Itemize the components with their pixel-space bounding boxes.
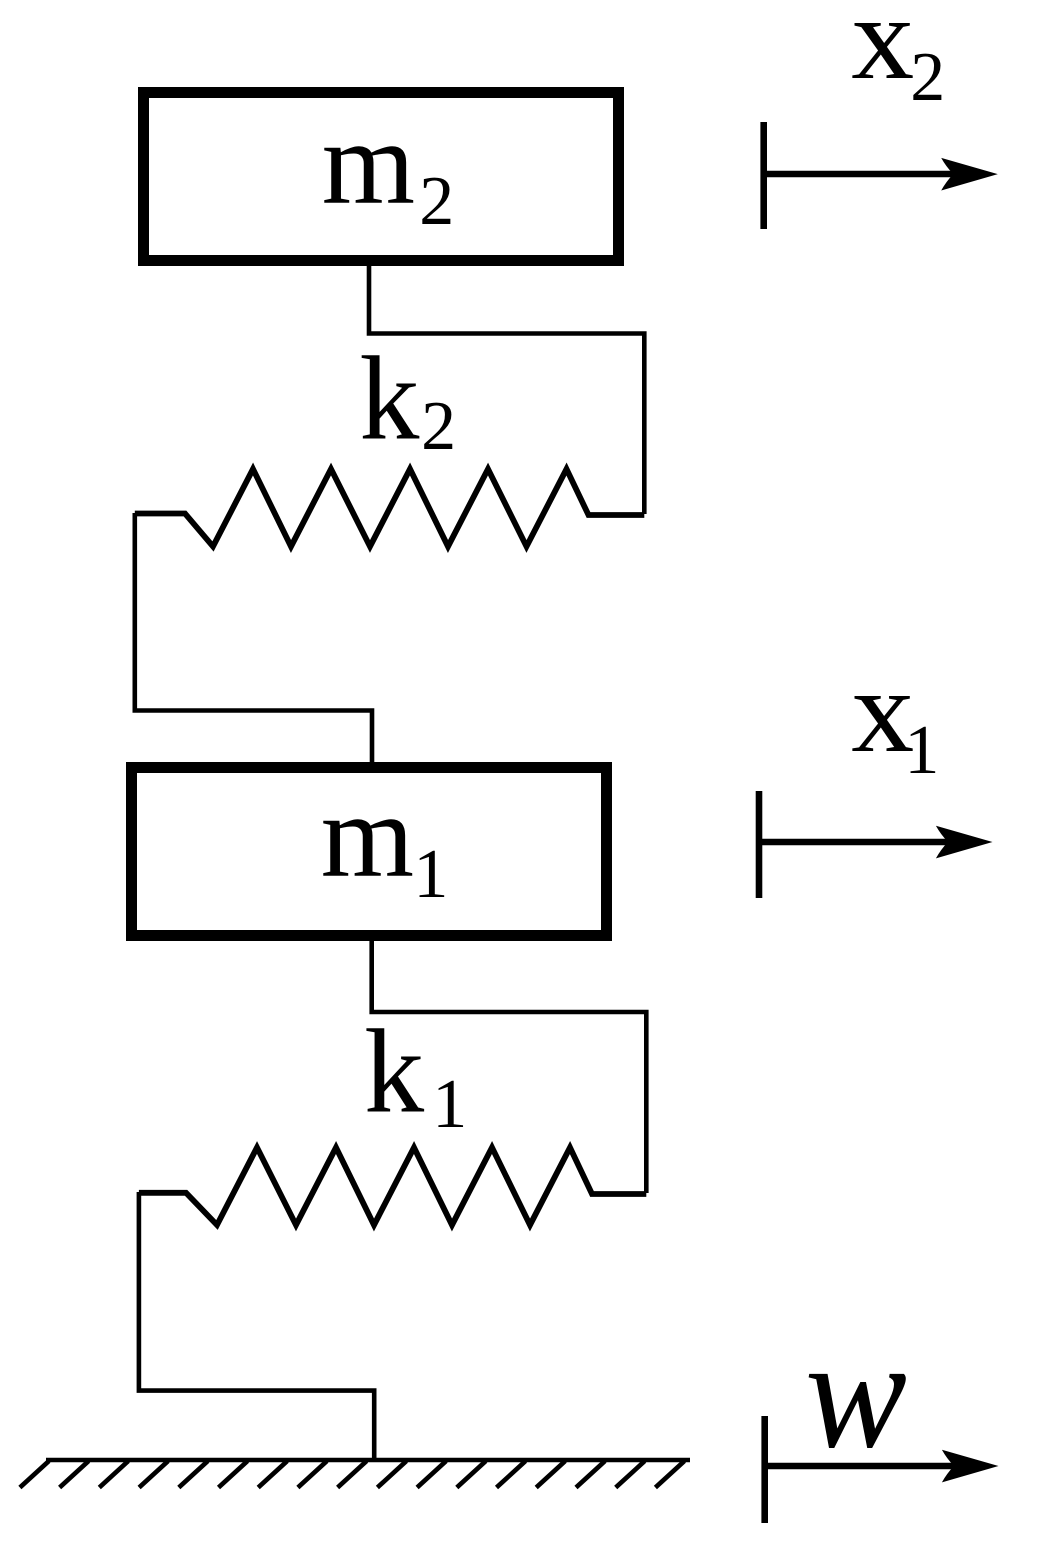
svg-text:w: w	[805, 1306, 907, 1481]
label x2	[851, 0, 945, 116]
wire m1 to spring k1	[372, 938, 647, 1193]
label k1	[364, 1005, 467, 1143]
svg-text:k: k	[364, 1005, 424, 1138]
spring k2	[135, 469, 645, 547]
wire m2 to spring k2	[369, 263, 644, 514]
label k2	[359, 331, 456, 465]
label m1	[321, 769, 449, 913]
svg-text:2: 2	[419, 163, 454, 240]
svg-text:x: x	[851, 0, 914, 105]
svg-text:2: 2	[910, 39, 945, 116]
arrow x2	[764, 122, 998, 229]
mass m2	[144, 93, 619, 261]
wire spring k2 to mass m1	[135, 513, 372, 764]
ground hatching	[20, 1461, 685, 1488]
arrow w	[765, 1416, 999, 1523]
ground	[46, 1458, 690, 1462]
arrow x1	[759, 791, 993, 898]
label m2	[322, 96, 455, 240]
svg-text:2: 2	[421, 388, 456, 465]
svg-text:m: m	[321, 769, 414, 902]
label w	[805, 1306, 907, 1481]
svg-text:m: m	[322, 96, 415, 229]
mass m1	[132, 768, 607, 936]
svg-text:1: 1	[432, 1066, 467, 1143]
svg-text:k: k	[359, 331, 419, 464]
svg-text:1: 1	[413, 836, 448, 913]
spring k1	[139, 1148, 646, 1226]
label x1	[851, 644, 939, 789]
svg-text:1: 1	[904, 712, 939, 789]
wire spring k1 to ground	[139, 1192, 374, 1460]
